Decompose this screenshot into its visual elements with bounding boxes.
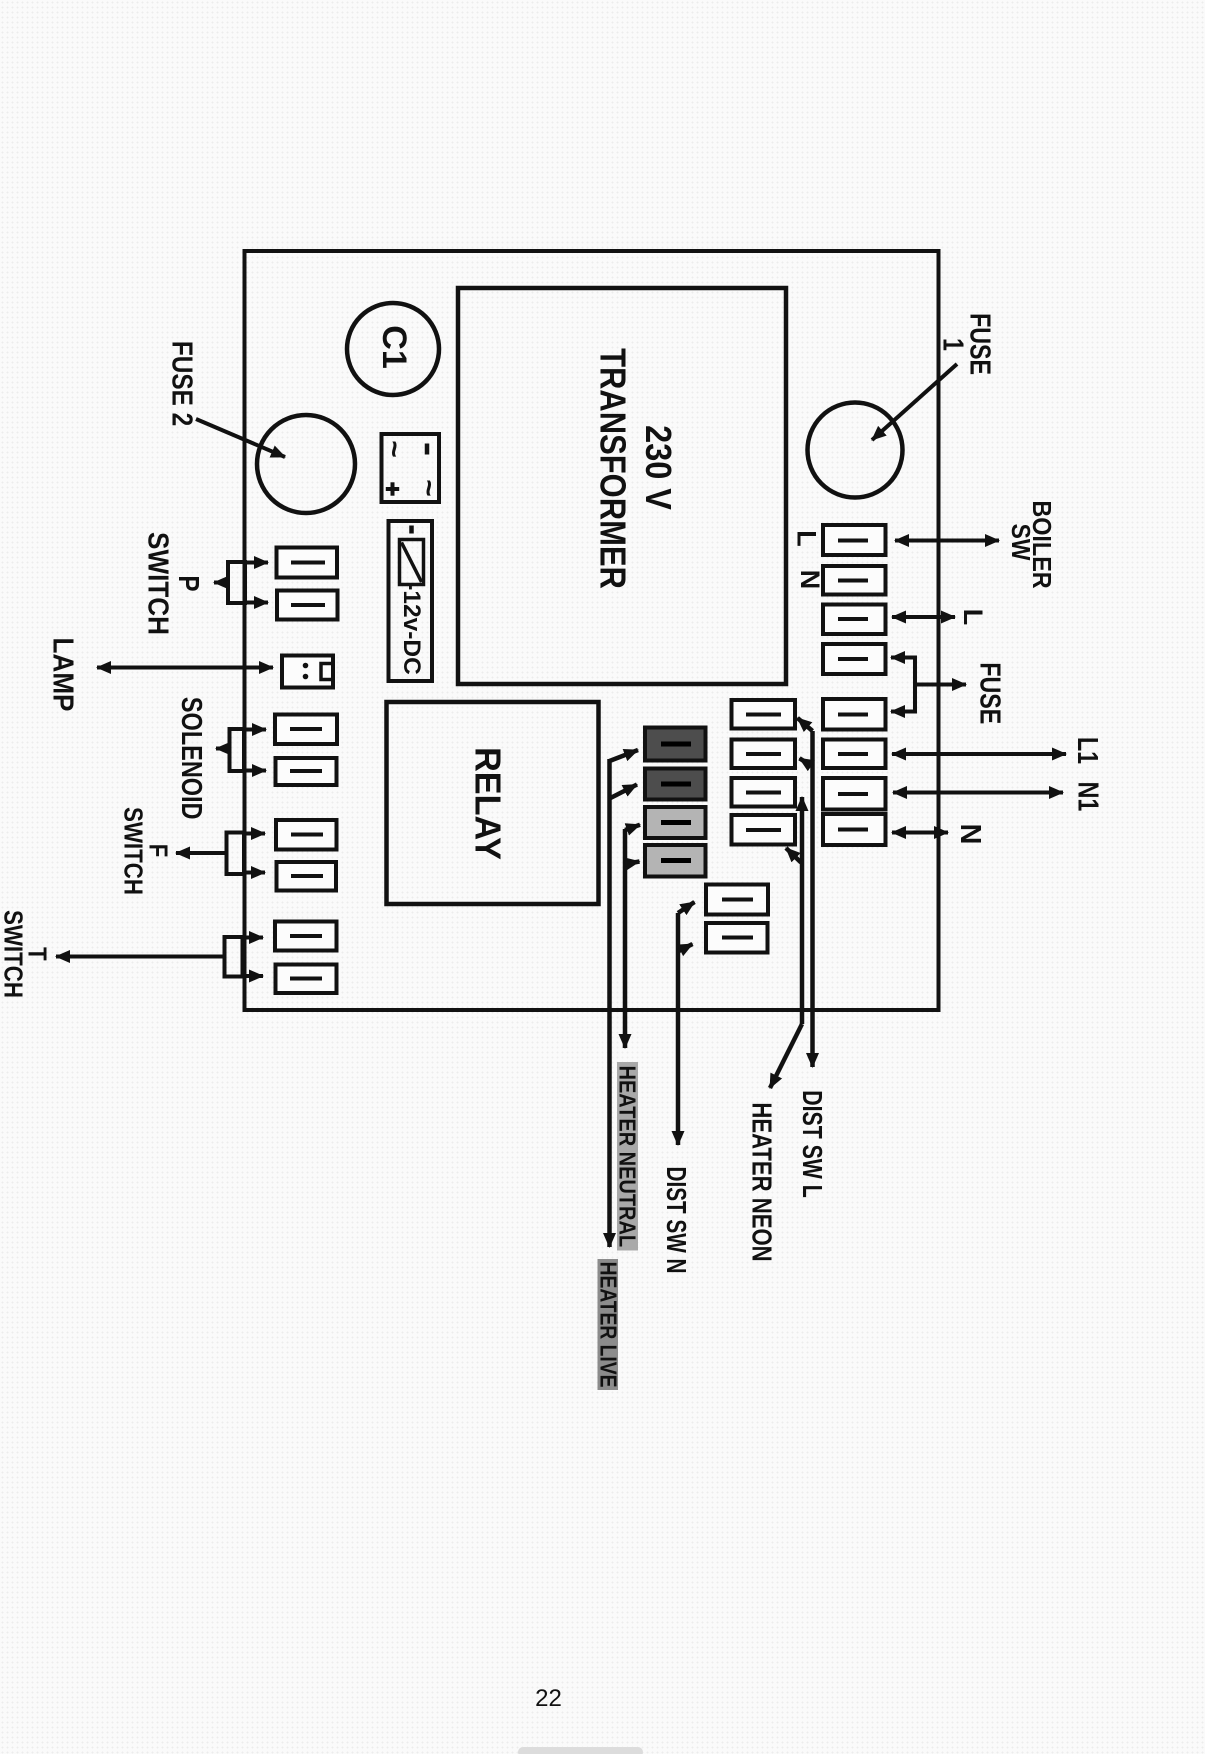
fuse F3 symbol <box>400 540 424 585</box>
terminal L1 <box>823 740 886 769</box>
terminal F-SW-1 <box>276 820 337 850</box>
terminal SOLENOID-2 <box>276 758 337 785</box>
P switch pointer bracket <box>214 562 268 603</box>
solenoid pointer bracket <box>216 729 266 771</box>
terminal HEATER-NEUTRAL-2 (light grey) <box>645 845 706 877</box>
wire HEATER LIVE run <box>610 750 639 1247</box>
terminal mains N <box>823 814 886 845</box>
transformer TR1 label "230 V TRANSFORMER" <box>592 348 677 589</box>
svg-text:FUSE 2: FUSE 2 <box>166 341 198 426</box>
rectifier BR1 body <box>382 434 440 502</box>
svg-text:N1: N1 <box>1072 782 1105 812</box>
svg-text:L: L <box>958 609 988 626</box>
wire FUSE 1 leader arrow <box>872 364 957 440</box>
label HEATER NEUTRAL (grey box) <box>614 1062 641 1251</box>
label BOILER SW <box>1006 500 1056 588</box>
fuse F1 (circle) <box>808 403 903 498</box>
terminal MID-2 <box>732 740 796 769</box>
terminal N1 <box>823 778 886 810</box>
fuse F2 (circle) <box>257 415 355 513</box>
terminal T-SW-1 <box>275 922 337 951</box>
wire FUSE 2 leader arrow <box>196 419 285 457</box>
wire DIST SW N run <box>678 902 695 1145</box>
terminal MID-3 <box>732 778 796 807</box>
scan artifact bar at bottom <box>518 1747 643 1754</box>
svg-text:HEATER NEON: HEATER NEON <box>746 1102 777 1261</box>
wire L1 double arrow <box>892 752 1066 756</box>
wire FUSE bracket <box>891 658 915 712</box>
svg-text:RELAY: RELAY <box>468 747 508 860</box>
terminal N (boiler) <box>823 566 886 595</box>
label F SWITCH <box>118 807 172 895</box>
svg-text:P: P <box>172 575 204 591</box>
svg-text:SWITCH: SWITCH <box>142 532 175 635</box>
terminal HEATER-LIVE-1 (dark grey) <box>645 728 706 761</box>
F switch pointer bracket <box>176 833 265 875</box>
svg-text:L: L <box>792 530 822 547</box>
T switch pointer bracket <box>56 937 263 977</box>
board outline <box>245 251 939 1010</box>
wire L double arrow <box>892 615 955 619</box>
transformer TR1 body <box>458 288 786 684</box>
svg-text:SWITCH: SWITCH <box>0 910 27 998</box>
capacitor C1 <box>347 303 439 395</box>
terminal MID-4 <box>732 815 796 845</box>
label FUSE 1 <box>937 313 997 375</box>
terminal P-SW-1 <box>277 548 338 578</box>
svg-text:L1: L1 <box>1071 737 1104 764</box>
terminal SOLENOID-1 <box>275 715 337 745</box>
svg-text:SW: SW <box>1006 524 1035 562</box>
terminal MID-1 <box>732 700 796 729</box>
svg-text:1: 1 <box>937 338 970 351</box>
svg-text:TRANSFORMER: TRANSFORMER <box>592 348 632 589</box>
svg-text:~: ~ <box>378 440 411 458</box>
svg-text:N: N <box>954 824 986 845</box>
terminal HEATER-LIVE-2 (dark grey) <box>645 769 706 800</box>
lamp connector J1 <box>282 656 333 688</box>
svg-text:-12v-DC: -12v-DC <box>398 582 425 674</box>
terminal HEATER-NEUTRAL-1 (light grey) <box>645 807 706 838</box>
fuse F3 label "-12v-DC" <box>0 0 2 2</box>
terminal L (boiler) <box>823 525 886 555</box>
svg-text:HEATER LIVE: HEATER LIVE <box>595 1262 621 1388</box>
fuse F3 12v-DC holder body <box>389 521 433 681</box>
svg-text:HEATER NEUTRAL: HEATER NEUTRAL <box>614 1066 641 1248</box>
terminal T-SW-2 <box>276 965 337 994</box>
svg-text:LAMP: LAMP <box>47 638 80 712</box>
svg-text:SWITCH: SWITCH <box>118 807 147 895</box>
terminal fuse-feed-1 <box>823 644 886 674</box>
svg-text:C1: C1 <box>375 325 413 368</box>
svg-text:DIST SW N: DIST SW N <box>660 1166 691 1273</box>
terminal DIST-pair-1 <box>706 885 768 915</box>
svg-text:DIST SW L: DIST SW L <box>796 1090 828 1198</box>
svg-text:~: ~ <box>412 479 445 497</box>
wire N double arrow <box>892 831 948 835</box>
relay K1 body <box>387 702 599 904</box>
svg-text:N: N <box>795 570 825 590</box>
terminal DIST-pair-2 <box>706 923 768 953</box>
wire FUSE stem arrow <box>915 683 966 687</box>
svg-text:22: 22 <box>535 1685 562 1712</box>
label P SWITCH <box>142 532 205 635</box>
wire HEATER NEUTRAL run <box>625 825 640 1048</box>
svg-text:230 V: 230 V <box>638 425 678 510</box>
svg-text:FUSE: FUSE <box>974 662 1007 724</box>
wire BOILER SW double arrow <box>895 539 999 543</box>
terminal F-SW-2 <box>277 862 337 891</box>
label T SWITCH <box>0 910 51 998</box>
rectifier BR1 pin marks <box>378 440 446 497</box>
wire LAMP double arrow <box>97 666 273 670</box>
wire HEATER NEON run <box>770 797 802 1088</box>
wire N1 double arrow <box>893 791 1063 795</box>
svg-text:SOLENOID: SOLENOID <box>175 697 208 820</box>
wire DIST SW L run <box>798 718 813 1067</box>
label HEATER LIVE (grey box) <box>595 1259 621 1390</box>
terminal mains L <box>823 605 886 635</box>
terminal fuse-feed-2 <box>823 699 886 730</box>
terminal P-SW-2 <box>277 591 338 620</box>
